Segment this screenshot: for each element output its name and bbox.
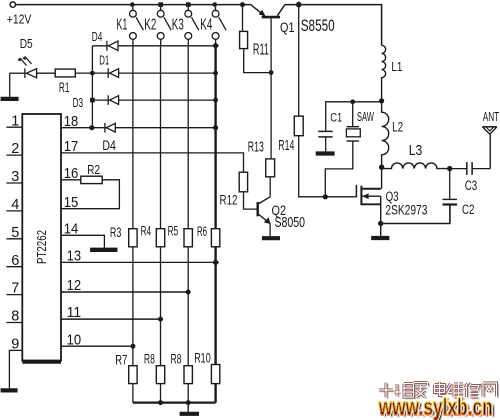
svg-text:7: 7 (11, 281, 19, 297)
svg-text:5: 5 (11, 225, 19, 241)
char 维 (448, 383, 464, 398)
node K4 column row C (213, 98, 218, 103)
svg-text:R10: R10 (194, 351, 211, 366)
node pin12-K3col (186, 290, 191, 295)
node SAW top (350, 99, 355, 104)
svg-text:R7: R7 (115, 352, 127, 367)
svg-text:2: 2 (11, 141, 19, 157)
node Q3 source (378, 221, 383, 226)
node rail-Q1-collector (296, 2, 302, 8)
wire pin 16 to R2 (61, 179, 81, 181)
wire pin 14 to ground (61, 235, 104, 247)
node pin10-K1col (130, 344, 135, 349)
char 家 (414, 383, 428, 398)
svg-text:R4: R4 (141, 223, 152, 238)
svg-text:D4: D4 (92, 30, 103, 44)
node L3-C3-C2 (447, 166, 452, 171)
wire diode row B (92, 72, 215, 74)
node K4 column row B (213, 71, 218, 76)
char 修 (465, 383, 479, 397)
svg-text:K2: K2 (144, 17, 156, 34)
node rail-K2 (158, 2, 163, 7)
svg-text:D5: D5 (20, 36, 33, 51)
transistor Q3 MOSFET (356, 167, 389, 238)
wire C1/SAW top rail (326, 102, 382, 132)
pin 9 to ground (9, 350, 22, 388)
wire R1 to bus (75, 72, 92, 74)
resistor R3 (129, 229, 137, 247)
switch K1 (130, 7, 144, 46)
wire pin 17 to R12 (61, 153, 244, 172)
inductor L3 (382, 163, 450, 169)
svg-text:www.sylxb.cn: www.sylxb.cn (378, 394, 493, 420)
node bus row D (89, 125, 94, 130)
ground (Q2) (262, 236, 280, 240)
svg-text:D1: D1 (99, 54, 109, 68)
pin 4 (6, 210, 22, 212)
wire pin 11 row (61, 318, 161, 320)
svg-text:ANT: ANT (483, 109, 500, 124)
svg-text:R1: R1 (59, 80, 70, 95)
resistor R4 (156, 229, 164, 247)
wire pin 12 row (61, 291, 188, 293)
svg-text:4: 4 (11, 197, 19, 213)
svg-text:+12V: +12V (7, 12, 32, 27)
wire R13 to Q2 (269, 177, 271, 197)
svg-text:D3: D3 (73, 96, 84, 110)
svg-text:C1: C1 (330, 112, 342, 124)
pin 1 (6, 126, 22, 128)
resistor R7 (129, 366, 137, 384)
pin 8 (6, 322, 22, 324)
node pin11-K2col (158, 317, 163, 322)
node bus row B (90, 71, 95, 76)
svg-text:R2: R2 (87, 162, 100, 177)
resistor R10 (211, 365, 219, 384)
IC U1 PT2262 (22, 114, 61, 362)
switch K2 (157, 7, 171, 46)
char 堰 (395, 384, 414, 398)
wire K3 column (187, 46, 189, 403)
svg-text:R12: R12 (220, 191, 238, 207)
wire diode row C (92, 99, 215, 101)
inductor L2 (382, 101, 389, 167)
svg-text:R8: R8 (171, 352, 182, 367)
transistor Q2 (258, 197, 271, 236)
node R11-Q1base (269, 70, 274, 75)
inductor L1 (382, 45, 386, 101)
svg-text:L2: L2 (392, 119, 403, 134)
wire left matrix bus (91, 46, 93, 128)
wire K4 column thick (214, 46, 216, 403)
node rail-R11 (240, 2, 245, 7)
switch K3 (185, 7, 199, 46)
switch K4 (212, 7, 226, 46)
wire R2 to pin 15 (61, 180, 119, 209)
diode D1 (108, 68, 118, 78)
svg-text:K4: K4 (200, 17, 212, 34)
pin 6 (6, 266, 22, 268)
wire R12 to Q2 base (244, 192, 258, 209)
capacitor C3 (450, 162, 491, 175)
svg-text:R14: R14 (278, 138, 294, 154)
svg-text:18: 18 (64, 113, 78, 130)
watermark chinese characters core (379, 382, 497, 398)
wire diode row D / pin 18 (61, 127, 216, 129)
svg-text:R5: R5 (168, 223, 179, 238)
wire +12V rail right to L1 (285, 5, 382, 46)
resistor R1 (55, 69, 75, 77)
svg-text:R13: R13 (248, 140, 264, 156)
svg-text:8: 8 (11, 309, 19, 325)
LED D5 (10, 57, 56, 79)
wire bottom rail (133, 402, 216, 404)
node rail-K1 (130, 2, 135, 7)
wire pin 10 row (61, 345, 133, 347)
svg-text:3: 3 (11, 169, 19, 185)
ground (pin 9) (1, 388, 18, 392)
node pin13-K4col (212, 259, 219, 266)
wire diode row A (92, 45, 215, 47)
SAW resonator (325, 102, 360, 197)
resistor R14 (294, 5, 356, 197)
pin 5 (6, 238, 22, 240)
svg-text:PT2262: PT2262 (34, 230, 49, 264)
pin 3 (6, 182, 22, 184)
watermark chinese characters outline (379, 382, 497, 398)
svg-text:S8550: S8550 (301, 16, 335, 35)
node K4 column row A (212, 42, 219, 49)
antenna ANT (482, 127, 496, 169)
svg-text:R6: R6 (197, 224, 207, 239)
svg-text:C2: C2 (462, 202, 475, 217)
ground (pin 14) (90, 248, 117, 252)
resistor R8 (second) (184, 366, 192, 384)
transistor Q1 (251, 5, 285, 159)
resistor R5 (184, 229, 192, 247)
char 网 (483, 383, 497, 397)
resistor R11 (240, 5, 272, 73)
node K4 column row D (213, 125, 218, 130)
svg-text:K3: K3 (172, 17, 184, 34)
svg-text:6: 6 (11, 253, 19, 269)
svg-text:L1: L1 (391, 60, 402, 74)
node L1-L2/SAW (379, 98, 384, 103)
svg-text:9: 9 (11, 337, 19, 353)
svg-text:C3: C3 (465, 178, 478, 193)
diode D4 top (107, 41, 118, 51)
node rail-K4 (213, 2, 218, 7)
resistor R2 (81, 176, 102, 183)
wire pin 13 row (61, 261, 216, 263)
svg-text:K1: K1 (116, 16, 127, 33)
svg-text:S8050: S8050 (275, 215, 306, 231)
resistor R13 (266, 159, 275, 177)
resistor R8 (156, 366, 164, 384)
wire K2 column (160, 46, 162, 403)
svg-text:SAW: SAW (357, 110, 374, 124)
node gate line (323, 194, 328, 199)
resistor R6 (211, 229, 219, 247)
node rail-R8b (186, 400, 191, 405)
capacitor C1 (316, 131, 335, 153)
ground (bottom rail) (180, 403, 199, 414)
diode D3 (108, 95, 118, 105)
ground (D5) (1, 73, 19, 99)
svg-text:Q1: Q1 (280, 19, 295, 35)
svg-text:2SK2973: 2SK2973 (385, 202, 427, 218)
node rail-R8 (158, 400, 163, 405)
node bus row C (90, 98, 95, 103)
svg-text:1: 1 (11, 113, 19, 129)
pin 7 (6, 294, 22, 296)
svg-text:R11: R11 (253, 42, 269, 59)
+12V terminal (10, 2, 15, 7)
char 电 (435, 382, 446, 396)
char 十 (379, 383, 393, 398)
capacitor C2 (381, 169, 457, 224)
svg-text:R8: R8 (144, 352, 155, 367)
svg-text:D4: D4 (102, 137, 116, 153)
pin 2 (6, 154, 22, 156)
node L2-L3-Q3 (379, 165, 384, 170)
node rail-K3 (186, 2, 191, 7)
wire +12V rail left (16, 4, 251, 6)
svg-text:R3: R3 (110, 225, 122, 240)
svg-text:L3: L3 (409, 142, 423, 159)
diode D4 bottom (105, 123, 115, 133)
resistor R12 (239, 172, 247, 192)
wire K1 column (132, 46, 134, 403)
watermark chinese characters shadow (381, 383, 499, 399)
